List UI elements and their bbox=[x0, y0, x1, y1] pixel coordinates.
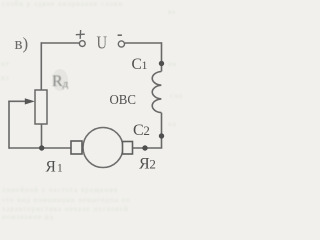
minus terminal circle bbox=[118, 41, 124, 47]
wire: right vertical from coil to bottom corner bbox=[161, 113, 163, 148]
wire: right vertical from top corner to coil bbox=[161, 42, 163, 71]
junction dot C1 bbox=[159, 61, 164, 66]
wire: rheostat wiper branch horizontal shaft bbox=[8, 100, 26, 102]
junction dot C2 bbox=[159, 133, 164, 138]
svg-text:2: 2 bbox=[149, 156, 156, 171]
motor armature circle bbox=[83, 128, 123, 168]
junction dot Ya2 terminal bbox=[142, 145, 147, 150]
junction dot at rheostat bottom node bbox=[39, 145, 44, 150]
svg-text:2: 2 bbox=[143, 123, 150, 138]
svg-text:в): в) bbox=[15, 34, 29, 53]
wire: left vertical below rheostat to bottom junction bbox=[41, 124, 43, 148]
svg-text:1: 1 bbox=[57, 162, 63, 174]
smudge behind Rd label bbox=[52, 69, 68, 91]
wire: bottom-right horizontal to right brush bbox=[133, 147, 163, 149]
svg-text:ОВС: ОВС bbox=[110, 93, 137, 108]
resistor Rd rectangle bbox=[35, 90, 47, 124]
plus sign of supply bbox=[76, 30, 85, 39]
right brush rectangle bbox=[123, 142, 133, 155]
faint page bleed-through text bbox=[2, 0, 123, 8]
plus terminal circle bbox=[79, 41, 85, 47]
svg-text:U: U bbox=[97, 33, 108, 53]
svg-text:Я: Я bbox=[46, 158, 56, 175]
wire: rheostat wiper branch left vertical bbox=[8, 101, 10, 149]
inductor OVS coil (3 bumps facing left) bbox=[152, 72, 161, 113]
minus sign of supply bbox=[118, 34, 122, 36]
left brush rectangle bbox=[71, 141, 82, 154]
wire: top-left horizontal from corner to + terminal bbox=[41, 42, 79, 44]
wire: minus terminal to top-right corner bbox=[125, 42, 162, 44]
wire: bottom-left horizontal run to left brush bbox=[9, 147, 71, 149]
svg-text:C: C bbox=[132, 56, 142, 73]
svg-text:C: C bbox=[133, 122, 144, 139]
arrowhead of rheostat wiper bbox=[25, 98, 35, 104]
wire: left vertical from top corner down to rheostat bbox=[40, 42, 42, 90]
svg-text:Я: Я bbox=[139, 155, 150, 172]
svg-text:1: 1 bbox=[142, 60, 148, 72]
